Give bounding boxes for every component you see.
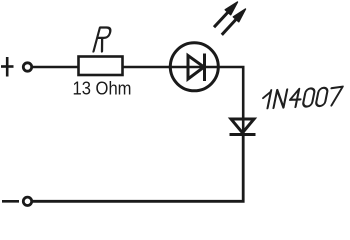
diode VD1 (1N4007) [230,119,256,135]
label R [94,28,112,52]
plus terminal label [1,57,14,77]
label 1N4007 [261,87,343,109]
LED emission arrow 2 [222,9,246,35]
wire (LED to top-right corner, then down) [220,67,244,133]
wire (top rail: terminal to resistor) [32,66,78,69]
LED emission arrow 1 [214,2,238,27]
resistor R1 [79,57,123,76]
LED D1 [169,43,220,91]
wire (diode to bottom-right corner, then left along bottom) [32,132,243,201]
minus terminal label [2,200,19,203]
terminal node (top) [23,63,31,71]
terminal node (bottom) [23,197,31,205]
svg-text:13 Ohm: 13 Ohm [73,79,132,99]
wire (resistor to LED) [123,66,171,69]
